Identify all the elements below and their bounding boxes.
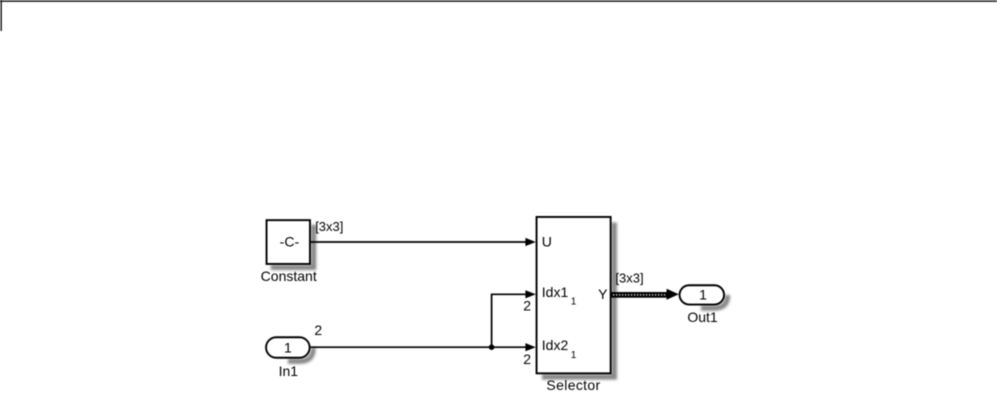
svg-text:U: U [542,233,552,249]
svg-text:-C-: -C- [280,233,300,249]
svg-text:2: 2 [523,351,531,367]
svg-text:1: 1 [284,339,292,355]
svg-text:Y: Y [598,286,608,302]
svg-text:Idx1: Idx1 [542,284,569,300]
svg-text:1: 1 [571,297,577,308]
svg-text:Idx2: Idx2 [542,337,569,353]
svg-text:2: 2 [523,297,531,313]
svg-text:Selector: Selector [546,377,600,393]
svg-text:1: 1 [699,287,707,303]
svg-text:[3x3]: [3x3] [615,271,643,286]
svg-text:Out1: Out1 [687,309,718,325]
svg-text:Constant: Constant [261,268,317,284]
svg-text:In1: In1 [279,363,299,379]
svg-text:2: 2 [314,322,322,338]
svg-text:1: 1 [571,350,577,361]
svg-text:[3x3]: [3x3] [315,219,343,234]
